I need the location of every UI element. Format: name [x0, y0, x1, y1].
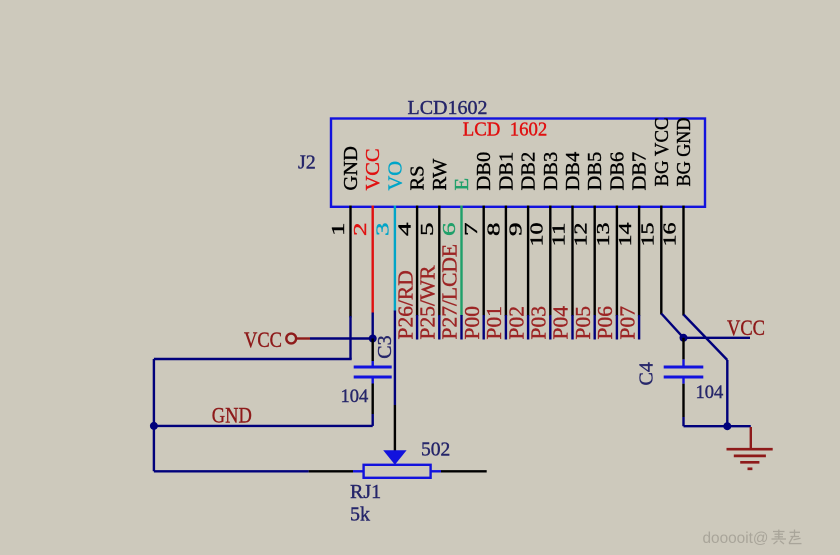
svg-text:GND: GND: [340, 146, 362, 190]
svg-text:8: 8: [483, 222, 503, 236]
svg-text:4: 4: [395, 222, 415, 236]
svg-text:RJ1: RJ1: [350, 481, 381, 503]
svg-text:DB4: DB4: [562, 152, 584, 191]
svg-text:12: 12: [571, 223, 591, 247]
svg-text:P07: P07: [615, 306, 639, 340]
svg-text:LCD1602: LCD1602: [408, 97, 488, 119]
svg-text:DB0: DB0: [473, 152, 495, 191]
svg-text:P27/LCDE: P27/LCDE: [438, 244, 462, 340]
svg-text:5: 5: [417, 222, 437, 236]
svg-text:11: 11: [549, 223, 569, 247]
svg-text:GND: GND: [212, 403, 252, 428]
svg-text:104: 104: [696, 383, 724, 403]
svg-text:P01: P01: [482, 306, 506, 339]
svg-text:VCC: VCC: [727, 315, 765, 340]
svg-text:502: 502: [421, 440, 450, 461]
svg-text:P06: P06: [593, 306, 617, 340]
svg-text:P05: P05: [571, 306, 595, 339]
svg-text:3: 3: [372, 222, 392, 236]
svg-text:6: 6: [439, 222, 459, 236]
svg-text:DB6: DB6: [606, 152, 628, 191]
svg-text:15: 15: [637, 222, 657, 246]
svg-text:13: 13: [593, 222, 613, 246]
svg-text:10: 10: [526, 222, 546, 246]
svg-text:P00: P00: [460, 306, 484, 339]
svg-text:BG VCC: BG VCC: [651, 118, 673, 187]
svg-text:104: 104: [341, 387, 369, 407]
svg-text:P03: P03: [527, 306, 551, 339]
svg-text:C4: C4: [636, 362, 658, 385]
svg-text:VO: VO: [384, 161, 406, 191]
svg-text:14: 14: [615, 222, 635, 246]
svg-text:VCC: VCC: [362, 148, 384, 190]
svg-text:P04: P04: [549, 306, 573, 340]
svg-text:DB1: DB1: [495, 152, 517, 191]
svg-text:BG GND: BG GND: [673, 118, 695, 187]
svg-text:7: 7: [461, 222, 481, 236]
svg-text:VCC: VCC: [244, 327, 282, 352]
svg-text:DB7: DB7: [629, 152, 651, 191]
svg-text:9: 9: [506, 222, 526, 236]
svg-text:P25/WR: P25/WR: [416, 265, 440, 340]
svg-text:J2: J2: [298, 152, 316, 174]
svg-text:DB5: DB5: [584, 152, 606, 191]
svg-text:RW: RW: [429, 158, 451, 191]
svg-text:5k: 5k: [350, 504, 370, 526]
svg-text:16: 16: [660, 222, 680, 246]
svg-text:dooooit@: dooooit@: [703, 530, 769, 547]
svg-text:DB3: DB3: [540, 152, 562, 191]
svg-text:DB2: DB2: [518, 152, 540, 191]
svg-text:RS: RS: [407, 165, 429, 190]
svg-text:P02: P02: [504, 306, 528, 339]
svg-text:P26/RD: P26/RD: [393, 270, 417, 339]
svg-text:1: 1: [328, 223, 348, 237]
svg-text:2: 2: [350, 223, 370, 237]
svg-text:E: E: [451, 178, 473, 191]
svg-text:LCD 1602: LCD 1602: [463, 119, 548, 141]
